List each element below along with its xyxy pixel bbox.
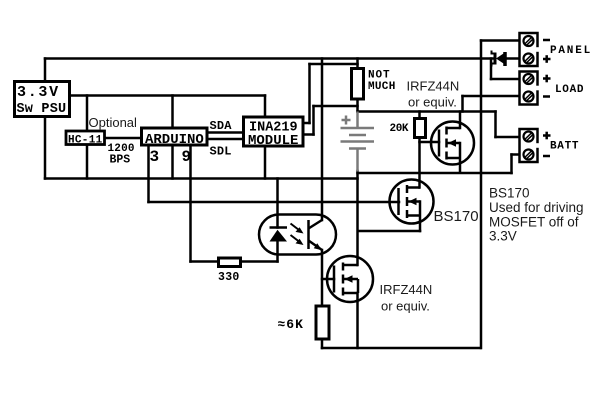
svg-text:MUCH: MUCH <box>368 81 396 93</box>
svg-text:NOT: NOT <box>368 70 391 82</box>
svg-text:MOSFET off of: MOSFET off of <box>489 214 579 229</box>
svg-text:SDA: SDA <box>210 119 233 133</box>
svg-text:HC-11: HC-11 <box>68 135 103 147</box>
svg-text:ARDUINO: ARDUINO <box>145 132 204 148</box>
svg-text:SDL: SDL <box>210 145 232 159</box>
svg-text:≈6K: ≈6K <box>278 317 304 332</box>
svg-text:MODULE: MODULE <box>248 133 298 149</box>
svg-text:or equiv.: or equiv. <box>408 95 457 110</box>
svg-text:BPS: BPS <box>110 154 131 167</box>
svg-text:or equiv.: or equiv. <box>381 299 430 314</box>
svg-text:IRFZ44N: IRFZ44N <box>407 79 460 94</box>
svg-text:Sw PSU: Sw PSU <box>17 102 67 117</box>
svg-text:3.3V: 3.3V <box>489 229 517 244</box>
svg-text:3.3V: 3.3V <box>17 84 60 101</box>
svg-text:BATT: BATT <box>550 141 579 153</box>
svg-text:IRFZ44N: IRFZ44N <box>380 282 433 297</box>
svg-text:Used for driving: Used for driving <box>489 200 584 215</box>
svg-text:Optional: Optional <box>89 115 138 130</box>
svg-text:BS170: BS170 <box>434 208 479 225</box>
svg-text:330: 330 <box>218 271 240 284</box>
svg-text:BS170: BS170 <box>489 186 530 201</box>
svg-text:PANEL: PANEL <box>550 45 592 57</box>
svg-text:20K: 20K <box>390 123 409 135</box>
svg-text:9: 9 <box>182 148 192 166</box>
svg-text:3: 3 <box>150 148 160 166</box>
svg-text:LOAD: LOAD <box>555 84 584 96</box>
